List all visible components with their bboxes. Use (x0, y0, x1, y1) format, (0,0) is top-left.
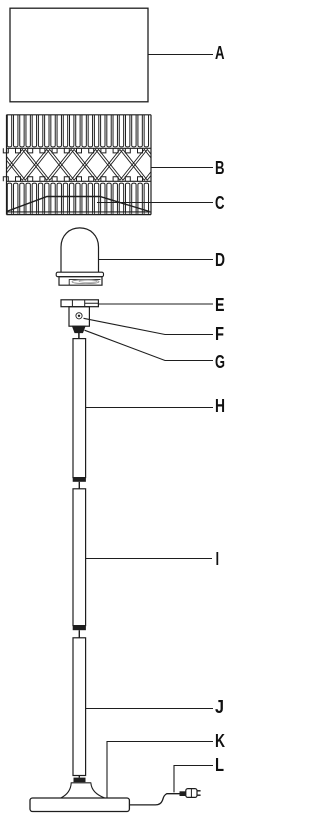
stem above pole H (78, 333, 80, 339)
lock nut G (73, 326, 86, 332)
bell flare of base (61, 783, 105, 798)
diffuser dome D (61, 228, 99, 272)
lower pole tube J (73, 638, 86, 776)
svg-text:B: B (215, 158, 225, 178)
crystal shade B frame (7, 115, 152, 215)
socket housing (69, 307, 89, 327)
shade B top rail (7, 147, 152, 149)
leader line J (86, 708, 213, 710)
leader line B (151, 167, 213, 169)
dome flange (56, 272, 103, 277)
threaded base connector K (78, 776, 80, 778)
middle pole tube I (73, 489, 86, 626)
shade B bottom rim lines (7, 211, 152, 213)
dome base step (69, 280, 100, 286)
pole joint connector 1 (73, 478, 86, 482)
upper pole tube H (73, 339, 86, 478)
dome base box (59, 277, 102, 286)
leader line F (84, 318, 214, 334)
svg-text:F: F (215, 324, 224, 344)
shade B top crystal rods (7, 115, 148, 147)
leader line L (174, 766, 213, 793)
dome base swirl (72, 280, 99, 284)
svg-text:L: L (215, 755, 224, 775)
leader line K (107, 742, 213, 798)
svg-text:C: C (215, 193, 225, 213)
inner frame C (trapezoid harp) (7, 197, 150, 212)
plug L (186, 789, 197, 798)
screw F (76, 313, 82, 319)
shade B diamond lattice (0, 150, 172, 181)
svg-text:A: A (215, 43, 225, 63)
shade B bottom rail (7, 180, 152, 182)
pole joint connector 2 (73, 626, 86, 631)
shade outer panel A (10, 8, 148, 102)
svg-text:H: H (215, 396, 225, 416)
leader line C (97, 202, 213, 204)
svg-text:D: D (215, 250, 225, 270)
shade B bottom crystal rods (7, 183, 148, 212)
cord strain relief (180, 791, 186, 796)
shade B bead caps (3, 148, 142, 181)
mounting bracket E (61, 300, 98, 307)
leader line A (148, 54, 213, 56)
leader line D (99, 259, 214, 261)
leader line G (85, 330, 214, 360)
base plate (30, 798, 129, 812)
plug prongs (197, 790, 201, 792)
leader line I (86, 558, 212, 560)
svg-text:E: E (215, 295, 225, 315)
svg-text:K: K (215, 731, 225, 751)
leader line H (86, 407, 213, 409)
svg-text:G: G (215, 352, 225, 372)
shade B bottom rim ticks (7, 212, 148, 215)
svg-text:J: J (215, 697, 224, 717)
power cord (129, 794, 179, 805)
svg-text:I: I (216, 549, 219, 569)
leader line E (98, 303, 213, 305)
